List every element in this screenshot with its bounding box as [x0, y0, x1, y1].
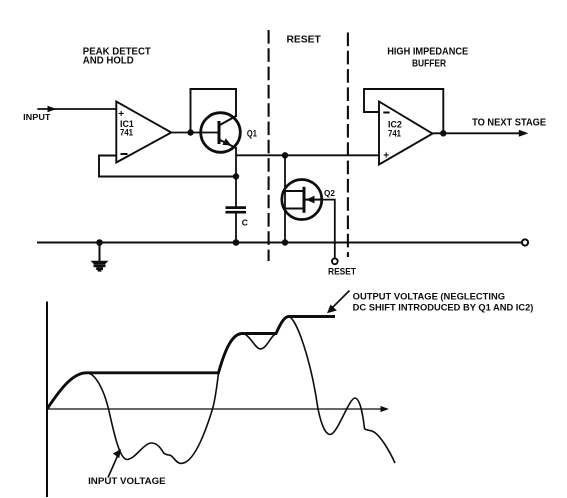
svg-text:741: 741: [120, 128, 133, 138]
capacitor C: [226, 208, 247, 243]
junction: Q2 source at ground rail: [282, 239, 288, 245]
label: PEAK DETECT AND HOLD: [83, 46, 151, 66]
junction: Q2 drain tap: [282, 152, 288, 158]
waveform: input voltage curve: [47, 317, 395, 464]
pointer arrow to output curve: [327, 291, 350, 314]
boundary dashed line right: [347, 33, 349, 258]
junction: IC2 output node: [440, 130, 446, 136]
junction: ground tap: [96, 239, 103, 246]
svg-text:741: 741: [388, 128, 401, 138]
svg-text:Q2: Q2: [324, 188, 335, 198]
svg-text:RESET: RESET: [328, 266, 356, 276]
svg-text:INPUT: INPUT: [23, 112, 51, 122]
waveform Y axis: [46, 302, 48, 498]
label: HIGH IMPEDANCE BUFFER: [387, 47, 468, 70]
svg-text:TO NEXT STAGE: TO NEXT STAGE: [472, 117, 546, 128]
svg-text:OUTPUT VOLTAGE (NEGLECTING: OUTPUT VOLTAGE (NEGLECTING: [353, 291, 505, 301]
boundary dashed line left: [268, 30, 270, 261]
label: OUTPUT VOLTAGE (NEGLECTING DC SHIFT INTRODUCED BY Q1 AND IC2): [353, 291, 534, 312]
svg-text:AND HOLD: AND HOLD: [83, 56, 134, 67]
input arrowhead: [48, 106, 57, 113]
terminal: RESET: [332, 258, 338, 264]
wire: base-collector short left leg: [190, 88, 192, 134]
wire: IC2 output to next stage: [433, 132, 521, 134]
wire: storage node to IC2 + input: [236, 154, 378, 156]
wire: feedback from IC1 inverting input: [99, 156, 236, 177]
transistor Q2: [282, 180, 322, 220]
svg-text:C: C: [242, 217, 248, 227]
junction: IC1 output node: [187, 129, 193, 135]
waveform: output voltage curve (peak hold): [47, 317, 335, 410]
wire: input to IC1 + input: [37, 108, 116, 110]
junction: storage node feedback tap: [233, 173, 239, 179]
wire: base-collector short top: [190, 88, 238, 90]
transistor Q1: [201, 113, 241, 153]
wire: Q2 drain/source vertical: [284, 155, 286, 242]
pointer arrow to input curve: [108, 449, 121, 478]
svg-text:HIGH IMPEDANCE: HIGH IMPEDANCE: [387, 47, 468, 58]
junction: capacitor at rail: [233, 239, 240, 246]
svg-text:INPUT VOLTAGE: INPUT VOLTAGE: [88, 476, 166, 486]
svg-text:Q1: Q1: [247, 128, 257, 138]
wire: Q1 emitter down to capacitor: [235, 147, 237, 207]
output arrowhead: [519, 130, 529, 137]
svg-text:DC SHIFT INTRODUCED BY Q1 AND: DC SHIFT INTRODUCED BY Q1 AND IC2): [353, 302, 534, 312]
wire: Q2 gate to RESET terminal: [318, 200, 335, 259]
terminal: rail right end: [522, 239, 528, 245]
ground: [91, 243, 109, 272]
wire: IC1 output to Q1 base: [172, 132, 218, 134]
svg-text:BUFFER: BUFFER: [412, 59, 447, 70]
op-amp U2 (IC2 741): [379, 102, 433, 165]
wire: ground rail: [37, 242, 522, 244]
waveform X axis: [47, 408, 383, 410]
wire: collector riser: [235, 88, 237, 117]
svg-text:RESET: RESET: [287, 34, 321, 45]
svg-text:+: +: [383, 151, 389, 162]
X axis arrowhead: [381, 406, 390, 412]
op-amp U1 (IC1 741): [116, 102, 171, 163]
wire: IC2 feedback loop: [364, 89, 443, 133]
